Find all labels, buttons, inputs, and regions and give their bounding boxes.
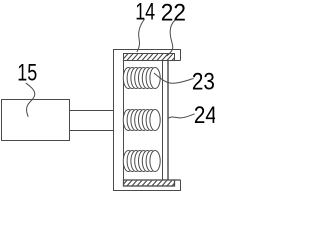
svg-text:14: 14 — [135, 0, 155, 25]
svg-text:15: 15 — [17, 59, 37, 86]
svg-text:22: 22 — [161, 0, 186, 26]
svg-text:24: 24 — [194, 102, 215, 129]
svg-text:23: 23 — [192, 68, 215, 95]
